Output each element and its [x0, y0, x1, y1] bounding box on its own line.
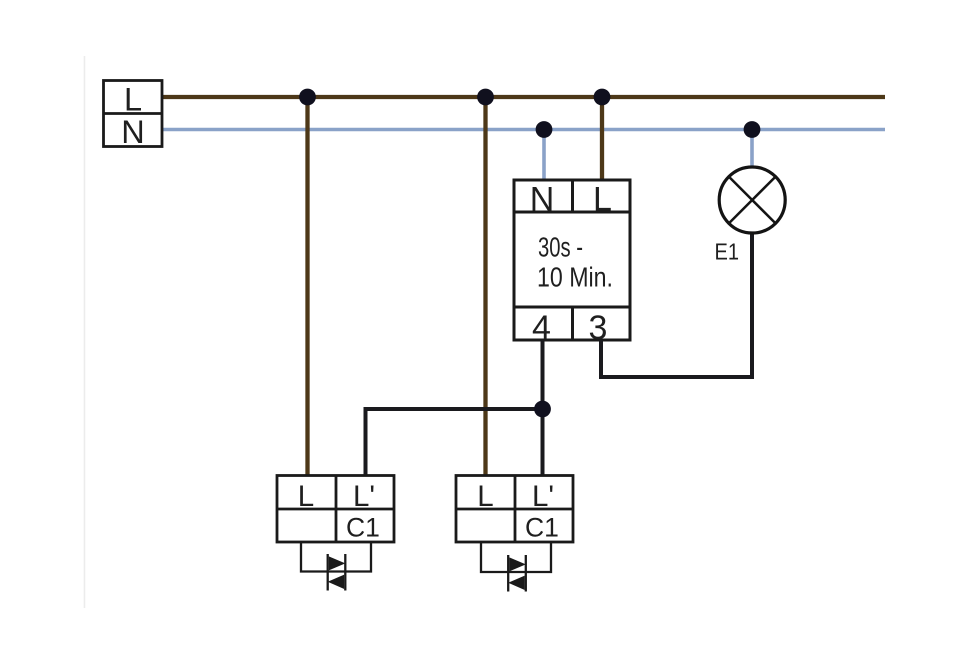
node on N bus above timer: [536, 121, 553, 138]
faint left page border: [84, 56, 86, 608]
lamp E1: [719, 167, 785, 233]
node on L bus above S2: [477, 89, 494, 106]
wire down into S2 L': [541, 409, 545, 476]
timer relay U1: [514, 180, 630, 340]
node pushbutton junction: [534, 401, 551, 418]
wire down into S1 L': [364, 407, 368, 476]
pushbutton S1 contact symbol: [328, 554, 346, 591]
svg-text:C1: C1: [346, 513, 380, 543]
wire L bus (brown phase line): [162, 95, 885, 99]
svg-text:N: N: [121, 114, 144, 150]
pushbutton S2 box: [456, 476, 573, 543]
node on N bus above lamp: [744, 121, 761, 138]
mains terminal box L/N: [104, 81, 163, 150]
svg-text:L': L': [532, 480, 554, 513]
pushbutton S2 actuator bracket: [481, 542, 551, 572]
pushbutton S1 box: [277, 476, 394, 543]
svg-text:L: L: [477, 480, 493, 513]
svg-text:L: L: [593, 181, 612, 219]
wire blue drop to lamp E1: [750, 130, 754, 170]
svg-text:L: L: [298, 480, 314, 513]
svg-text:L: L: [124, 82, 142, 118]
svg-text:C1: C1: [525, 513, 559, 543]
wire horizontal to S1 L': [366, 407, 543, 411]
node on L bus above S1: [299, 89, 316, 106]
wire brown drop to timer L: [600, 97, 604, 180]
svg-text:E1: E1: [715, 239, 740, 265]
wire from timer pin 4 down: [541, 340, 545, 409]
svg-text:10 Min.: 10 Min.: [537, 262, 613, 293]
svg-text:3: 3: [589, 309, 608, 347]
wire N bus (blue neutral line): [162, 128, 885, 132]
node on L bus above timer: [594, 89, 611, 106]
svg-text:30s -: 30s -: [538, 232, 583, 263]
wire brown drop to switch S1 L: [305, 97, 309, 476]
wire blue drop to timer N: [542, 130, 546, 181]
pushbutton S2 contact symbol: [508, 555, 526, 592]
pushbutton S1 actuator bracket: [301, 542, 371, 572]
svg-text:L': L': [353, 480, 375, 513]
wire from timer pin 3 to lamp: [601, 233, 752, 377]
wire brown drop to switch S2 L: [483, 97, 487, 476]
svg-text:N: N: [530, 181, 555, 219]
